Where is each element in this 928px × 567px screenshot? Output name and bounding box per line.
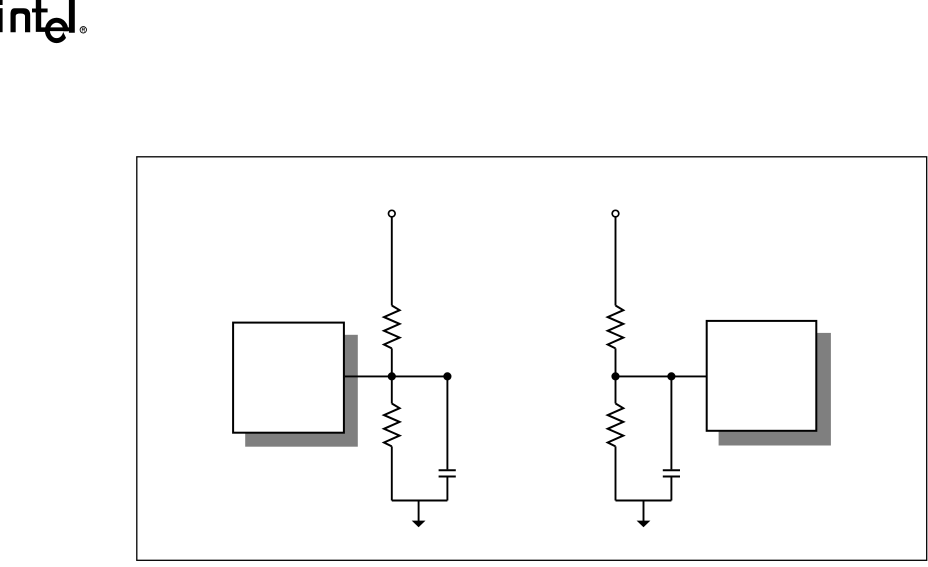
node C (right junction) xyxy=(611,372,619,380)
figure border frame xyxy=(137,157,927,561)
wire: node D down to capacitor C2 xyxy=(670,376,672,469)
wire: right supply terminal to R3 xyxy=(615,217,617,306)
wire: right bottom rail xyxy=(616,500,672,502)
intel logo xyxy=(0,0,87,43)
resistor R1 (left pull-up) xyxy=(384,306,400,349)
wire: R2 to bottom rail xyxy=(391,446,393,500)
wire: left bottom rail xyxy=(392,500,448,502)
ground (left) xyxy=(412,521,426,528)
wire: C2 to bottom rail xyxy=(670,477,672,500)
box shadow (left IC) xyxy=(245,335,358,447)
wire: R1 to node A xyxy=(391,348,393,376)
resistor R3 (right pull-up) xyxy=(608,306,624,349)
resistor R2 (left pull-down) xyxy=(384,404,400,447)
node B (left capacitor junction) xyxy=(443,372,451,380)
wire: left ground stem xyxy=(418,501,420,522)
wire: C1 to bottom rail xyxy=(446,477,448,500)
node D (right capacitor junction) xyxy=(667,372,675,380)
supply terminal (left, open circle) xyxy=(389,210,396,217)
wire: node C to R4 xyxy=(615,376,617,403)
wire: node C to right box (horizontal) xyxy=(616,375,707,377)
capacitor C1 (left) xyxy=(439,470,456,476)
IC box U1 (left) xyxy=(233,323,344,433)
capacitor C2 (right) xyxy=(663,470,680,476)
ground (right) xyxy=(637,521,651,528)
wire: left supply terminal to R1 xyxy=(391,217,393,306)
wire: node B down to capacitor C1 xyxy=(446,376,448,469)
wire: right ground stem xyxy=(643,501,645,522)
box shadow (right IC) xyxy=(719,333,831,446)
resistor R4 (right pull-down) xyxy=(608,404,624,447)
wire: node A to R2 xyxy=(391,376,393,403)
wire: R3 to node C xyxy=(615,348,617,376)
supply terminal (right, open circle) xyxy=(612,210,619,217)
wire: left box to node B (horizontal) xyxy=(345,375,448,377)
IC box U2 (right) xyxy=(707,321,817,431)
wire: R4 to bottom rail xyxy=(615,446,617,500)
node A (left junction) xyxy=(388,372,396,380)
